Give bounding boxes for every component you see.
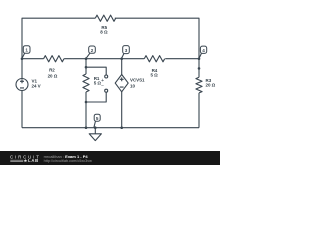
svg-text:★LAB: ★LAB [23, 158, 39, 163]
wire R3 bottom down to bottom rail [198, 93, 200, 128]
label R3 value 20 ohm [206, 78, 216, 88]
junction dot bottom rail at R1 branch [85, 126, 88, 129]
label R2 value 20 ohm [48, 68, 58, 79]
ground [89, 128, 101, 141]
junction dot node 2 anchor [85, 57, 88, 60]
svg-text:2: 2 [91, 48, 94, 53]
svg-text:3: 3 [125, 48, 128, 53]
node flag 4 [199, 46, 207, 58]
resistor R1 [83, 74, 89, 92]
svg-text:1: 1 [25, 48, 28, 53]
wire V1 bottom down to bottom rail [21, 91, 23, 128]
wire VCVS1 bottom down to bottom rail [121, 92, 123, 128]
resistor R3 [196, 77, 202, 93]
resistor R2 [44, 56, 64, 62]
svg-text:20 Ω: 20 Ω [206, 83, 216, 88]
label R4 value 5 ohm [151, 68, 159, 78]
footer bar [0, 151, 220, 165]
svg-text:5 Ω: 5 Ω [151, 73, 159, 78]
VCVS1 sense terminal + [101, 75, 108, 84]
wire R2 to node 2 to node 3 to R4 [64, 58, 144, 60]
wire R1 bottom down to bottom rail [85, 92, 87, 128]
svg-text:http://circuitlab.com/c5xc3vw: http://circuitlab.com/c5xc3vw [44, 159, 93, 163]
wire node 4 down to R3 [198, 59, 200, 78]
junction dot R1 sense top [85, 66, 88, 69]
svg-text:20 Ω: 20 Ω [48, 74, 58, 79]
junction dot node 1 anchor [21, 57, 24, 60]
VCVS1 sense terminal - [101, 84, 108, 93]
wire node1 to R2 [22, 58, 44, 60]
svg-text:10: 10 [130, 83, 135, 88]
junction dot bottom rail at VCVS branch [120, 126, 123, 129]
junction dot node 3 anchor [120, 57, 123, 60]
svg-text:4: 4 [202, 48, 205, 53]
svg-text:VCVS1: VCVS1 [130, 78, 145, 83]
voltage source V1 [16, 79, 28, 91]
node flag 1 [22, 46, 30, 59]
bottom wire [22, 127, 199, 129]
svg-text:R2: R2 [49, 68, 55, 73]
node flag 3 [122, 46, 130, 59]
footer title text [44, 154, 93, 163]
svg-text:24 V: 24 V [32, 83, 41, 88]
wire R4 to node 4 [165, 58, 199, 60]
junction dot bottom rail at ground [94, 126, 97, 129]
resistor R5 [95, 15, 115, 21]
label R5 value 8 ohm [100, 25, 108, 35]
wire VCVS sense - to R1 branch [86, 92, 106, 102]
wire top-left from R5 to left rail down to node 1 [22, 18, 95, 59]
wire top-right from R5 to right rail down to node 4 [115, 18, 199, 59]
resistor R4 [144, 56, 164, 62]
svg-text:−: − [101, 84, 104, 90]
svg-text:5: 5 [96, 116, 99, 121]
wire node1 down to V1 top [21, 59, 23, 79]
junction dot R1 sense bottom [85, 101, 88, 104]
wire node 3 down to VCVS1 top [121, 59, 123, 75]
junction dot R3 top [198, 67, 201, 70]
node flag 5 [94, 114, 100, 127]
dependent source VCVS1 diamond [115, 75, 128, 92]
wire node 2 down to R1 [85, 59, 87, 74]
label V1 24 V [32, 79, 41, 89]
wire VCVS sense + from R1 branch [86, 67, 106, 75]
svg-text:8 Ω: 8 Ω [100, 30, 108, 35]
label R1 value 5 ohm [94, 76, 102, 86]
junction dot node 4 anchor [198, 57, 201, 60]
footer CircuitLab logo [10, 154, 41, 163]
label VCVS1 gain 10 [130, 78, 145, 89]
node flag 2 [86, 46, 95, 58]
